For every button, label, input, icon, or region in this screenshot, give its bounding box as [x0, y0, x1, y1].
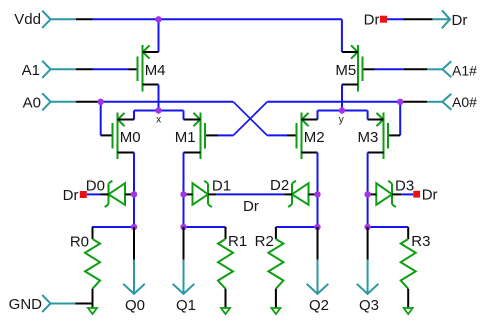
svg-text:Dr: Dr — [422, 187, 438, 204]
wire Dr top stub — [404, 18, 433, 20]
ground under R1 — [221, 308, 230, 314]
svg-text:D2: D2 — [270, 177, 289, 194]
svg-text:M5: M5 — [335, 62, 356, 79]
transistor M5 — [335, 45, 362, 92]
wire A0 horizontal — [98, 101, 234, 103]
svg-text:D3: D3 — [395, 178, 414, 195]
node y — [318, 110, 368, 112]
port A0# — [427, 94, 451, 110]
wire M3 gate stub — [388, 134, 400, 136]
wire M0 gate stub — [101, 134, 113, 136]
svg-text:R2: R2 — [255, 233, 274, 250]
port A0 — [42, 93, 76, 110]
svg-text:M2: M2 — [304, 129, 325, 146]
junction Q3/R3 — [364, 224, 370, 230]
wire A1 to M4 gate — [93, 68, 129, 70]
wire D3 to Dr — [401, 193, 413, 195]
port Q0 — [133, 227, 135, 260]
junction A0# — [397, 99, 403, 105]
svg-text:D0: D0 — [86, 178, 105, 195]
label Dr virtual connector (right) — [413, 191, 420, 198]
ground under R0 — [88, 304, 97, 315]
wire Q2 to R2 — [276, 226, 318, 228]
wire A0# diagonal to M1 gate — [233, 102, 267, 136]
svg-text:Dr: Dr — [63, 187, 79, 204]
svg-text:A0: A0 — [23, 95, 41, 112]
wire Q3 to R3 — [368, 226, 409, 228]
resistor R1 — [218, 227, 247, 308]
svg-text:M4: M4 — [145, 62, 166, 79]
junction A0 — [98, 99, 104, 105]
svg-text:D1: D1 — [212, 178, 231, 195]
diode D3 — [370, 181, 401, 207]
svg-text:M1: M1 — [175, 129, 196, 146]
svg-text:A1#: A1# — [452, 62, 477, 78]
wire Vdd to M5 source — [341, 19, 343, 52]
svg-text:GND: GND — [9, 296, 43, 313]
junction D1/Q1 — [180, 191, 186, 197]
ground under R3 — [404, 308, 413, 314]
port Q2 — [317, 227, 319, 260]
wire Vdd port stub — [76, 18, 93, 20]
node x — [134, 110, 184, 112]
wire node x to M1 — [183, 111, 185, 120]
svg-text:R3: R3 — [411, 233, 430, 250]
junction Vdd/M4 — [155, 16, 161, 22]
label Dr virtual connector (left) — [80, 191, 87, 198]
wire A1# to M5 gate — [375, 68, 405, 70]
wire M5 drain — [341, 85, 343, 111]
port A1# — [427, 61, 451, 77]
wire M0 drain down — [133, 153, 135, 228]
wire A0 diagonal to M2 gate — [233, 102, 267, 136]
wire Q1 to R1 — [184, 226, 226, 228]
wire node y to M2 — [317, 111, 319, 120]
wire A0 down to M0 gate — [100, 102, 102, 136]
svg-text:A0#: A0# — [452, 94, 477, 110]
wire M5 gate stub — [363, 68, 375, 70]
diode D2 — [284, 181, 314, 207]
junction D3/Q3 — [364, 191, 370, 197]
wire A0# horizontal — [267, 101, 403, 103]
svg-text:Dr: Dr — [452, 12, 468, 29]
wire Vdd rail — [93, 18, 342, 20]
wire A0# down to M3 gate — [399, 102, 401, 136]
junction Q1/R1 — [180, 224, 186, 230]
wire M1 drain down — [183, 153, 185, 228]
wire to M1 gate — [218, 134, 233, 136]
transistor M0 — [113, 113, 141, 160]
wire M2 drain down — [317, 153, 319, 228]
svg-text:Q2: Q2 — [309, 297, 329, 314]
svg-text:Vdd: Vdd — [14, 11, 41, 28]
port A1 — [42, 61, 76, 78]
wire A0 port stub — [76, 101, 98, 103]
svg-text:Dr: Dr — [243, 198, 259, 215]
transistor M3 — [358, 113, 388, 160]
junction D0/Q0 — [131, 191, 137, 197]
resistor R2 — [255, 227, 284, 308]
wire GND — [75, 303, 92, 305]
wire M2 gate stub — [287, 134, 297, 136]
port Q1 — [183, 227, 185, 260]
port Vdd — [42, 11, 76, 28]
wire M1 gate stub — [205, 134, 218, 136]
svg-text:R0: R0 — [70, 234, 89, 251]
svg-text:Q0: Q0 — [125, 297, 145, 314]
svg-text:x: x — [156, 115, 161, 126]
wire node x to M0 — [133, 111, 135, 120]
wire Q0 to R0 — [92, 226, 134, 228]
wire M4 gate stub — [129, 68, 138, 70]
junction Q2/R2 — [314, 224, 320, 230]
port Dr out (top right) — [432, 10, 450, 28]
resistor R0 — [70, 227, 100, 304]
wire Dr between D1 and D2 — [216, 193, 284, 195]
wire A1# port stub — [404, 68, 427, 70]
label Dr virtual connector (top) — [380, 16, 387, 23]
wire Dr top — [387, 18, 404, 20]
transistor M4 — [138, 45, 166, 92]
transistor M1 — [175, 113, 205, 160]
wire Dr to D0 — [87, 193, 101, 195]
ground under R2 — [271, 308, 280, 314]
wire A0# port stub — [404, 101, 428, 103]
junction Q0/R0 — [131, 224, 137, 230]
transistor M2 — [297, 113, 325, 160]
diode D1 — [185, 181, 216, 207]
wire A1 port stub — [76, 68, 93, 70]
wire node y to M3 — [367, 111, 369, 120]
wire to M2 gate — [267, 134, 287, 136]
port Q3 — [367, 227, 369, 260]
svg-text:M0: M0 — [120, 129, 141, 146]
wire M3 drain down — [367, 153, 369, 228]
resistor R3 — [401, 227, 431, 308]
diode D0 — [101, 181, 132, 207]
svg-text:Q3: Q3 — [359, 297, 379, 314]
svg-text:R1: R1 — [228, 233, 247, 250]
wire Vdd to M4 source — [158, 19, 160, 52]
svg-text:A1: A1 — [22, 62, 40, 79]
svg-text:M3: M3 — [358, 129, 379, 146]
svg-text:Dr: Dr — [364, 11, 380, 28]
junction D2/Q2 — [314, 191, 320, 197]
svg-text:y: y — [339, 115, 344, 126]
port GND — [42, 295, 75, 312]
wire M4 drain — [158, 85, 160, 111]
svg-text:Q1: Q1 — [176, 297, 196, 314]
